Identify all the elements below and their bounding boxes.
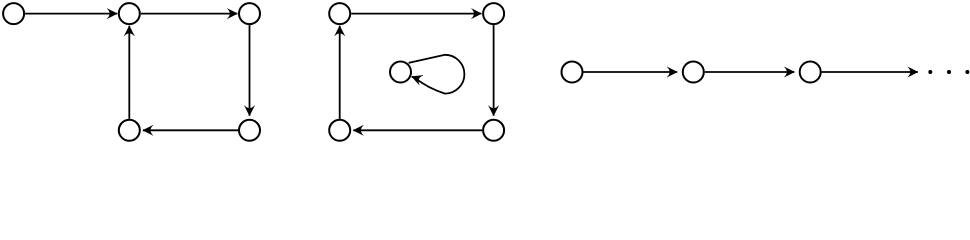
edge A1->A2 [25,13,117,15]
node A1 (graph 1 top-left) [3,3,24,24]
node B5 (graph 2 center, self-loop) [390,62,411,83]
edge A2->A3 [141,13,238,15]
edge B3->B1 [339,26,341,119]
edge B4->B3 [353,129,482,131]
edge C3->... [822,71,918,73]
ellipsis dot 1 [928,70,932,74]
edge C1->C2 [584,71,678,73]
node A3 (graph 1 top-right) [239,3,260,24]
node B2 (graph 2 top-right) [483,3,504,24]
node C1 (graph 3 first) [562,62,583,83]
edge C2->C3 [705,71,795,73]
node B3 (graph 2 bottom-left) [329,120,350,141]
node B4 (graph 2 bottom-right) [483,120,504,141]
edge A3->A5 [249,25,251,116]
node C2 (graph 3 second) [683,62,704,83]
node C3 (graph 3 third) [800,62,821,83]
edge B2->B4 [493,25,495,116]
node B1 (graph 2 top-left) [329,3,350,24]
edge A4->A2 [128,26,130,119]
self-loop on B5 [409,55,465,94]
ellipsis dot 3 [965,70,969,74]
edge B1->B2 [351,13,481,15]
edge A5->A4 [143,129,238,131]
ellipsis dot 2 [947,70,951,74]
node A5 (graph 1 bottom-right) [239,120,260,141]
node A4 (graph 1 bottom-left) [119,120,140,141]
node A2 (graph 1 top-middle) [119,3,140,24]
